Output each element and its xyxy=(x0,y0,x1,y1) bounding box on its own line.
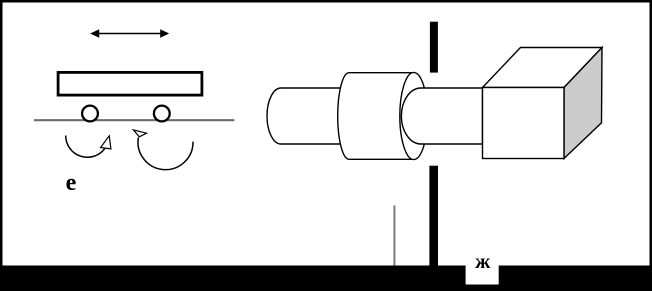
cart wheel right xyxy=(154,106,170,122)
flange right end ellipse xyxy=(400,72,428,159)
wall bar bottom segment xyxy=(429,166,438,266)
ground line under cart xyxy=(34,119,234,121)
cart wheel left xyxy=(82,106,98,122)
svg-text:е: е xyxy=(66,170,77,196)
right shaft cylinder (rounded left end) xyxy=(401,88,482,144)
left shaft cylinder (rounded left end) xyxy=(267,88,345,144)
double-headed arrow (translation) xyxy=(90,29,169,38)
rotation arrow right (clockwise) xyxy=(133,130,193,170)
cube top face xyxy=(483,48,603,88)
ground bar with notch xyxy=(0,266,652,291)
cube right face (shaded) xyxy=(564,48,602,159)
cube front face xyxy=(483,88,565,159)
thin gray post xyxy=(393,205,395,265)
flange cylinder body xyxy=(338,73,414,160)
rotation arrow left (counterclockwise) xyxy=(66,136,111,158)
cart body xyxy=(58,72,202,95)
wall bar top segment xyxy=(430,22,438,73)
svg-text:ж: ж xyxy=(475,249,491,273)
